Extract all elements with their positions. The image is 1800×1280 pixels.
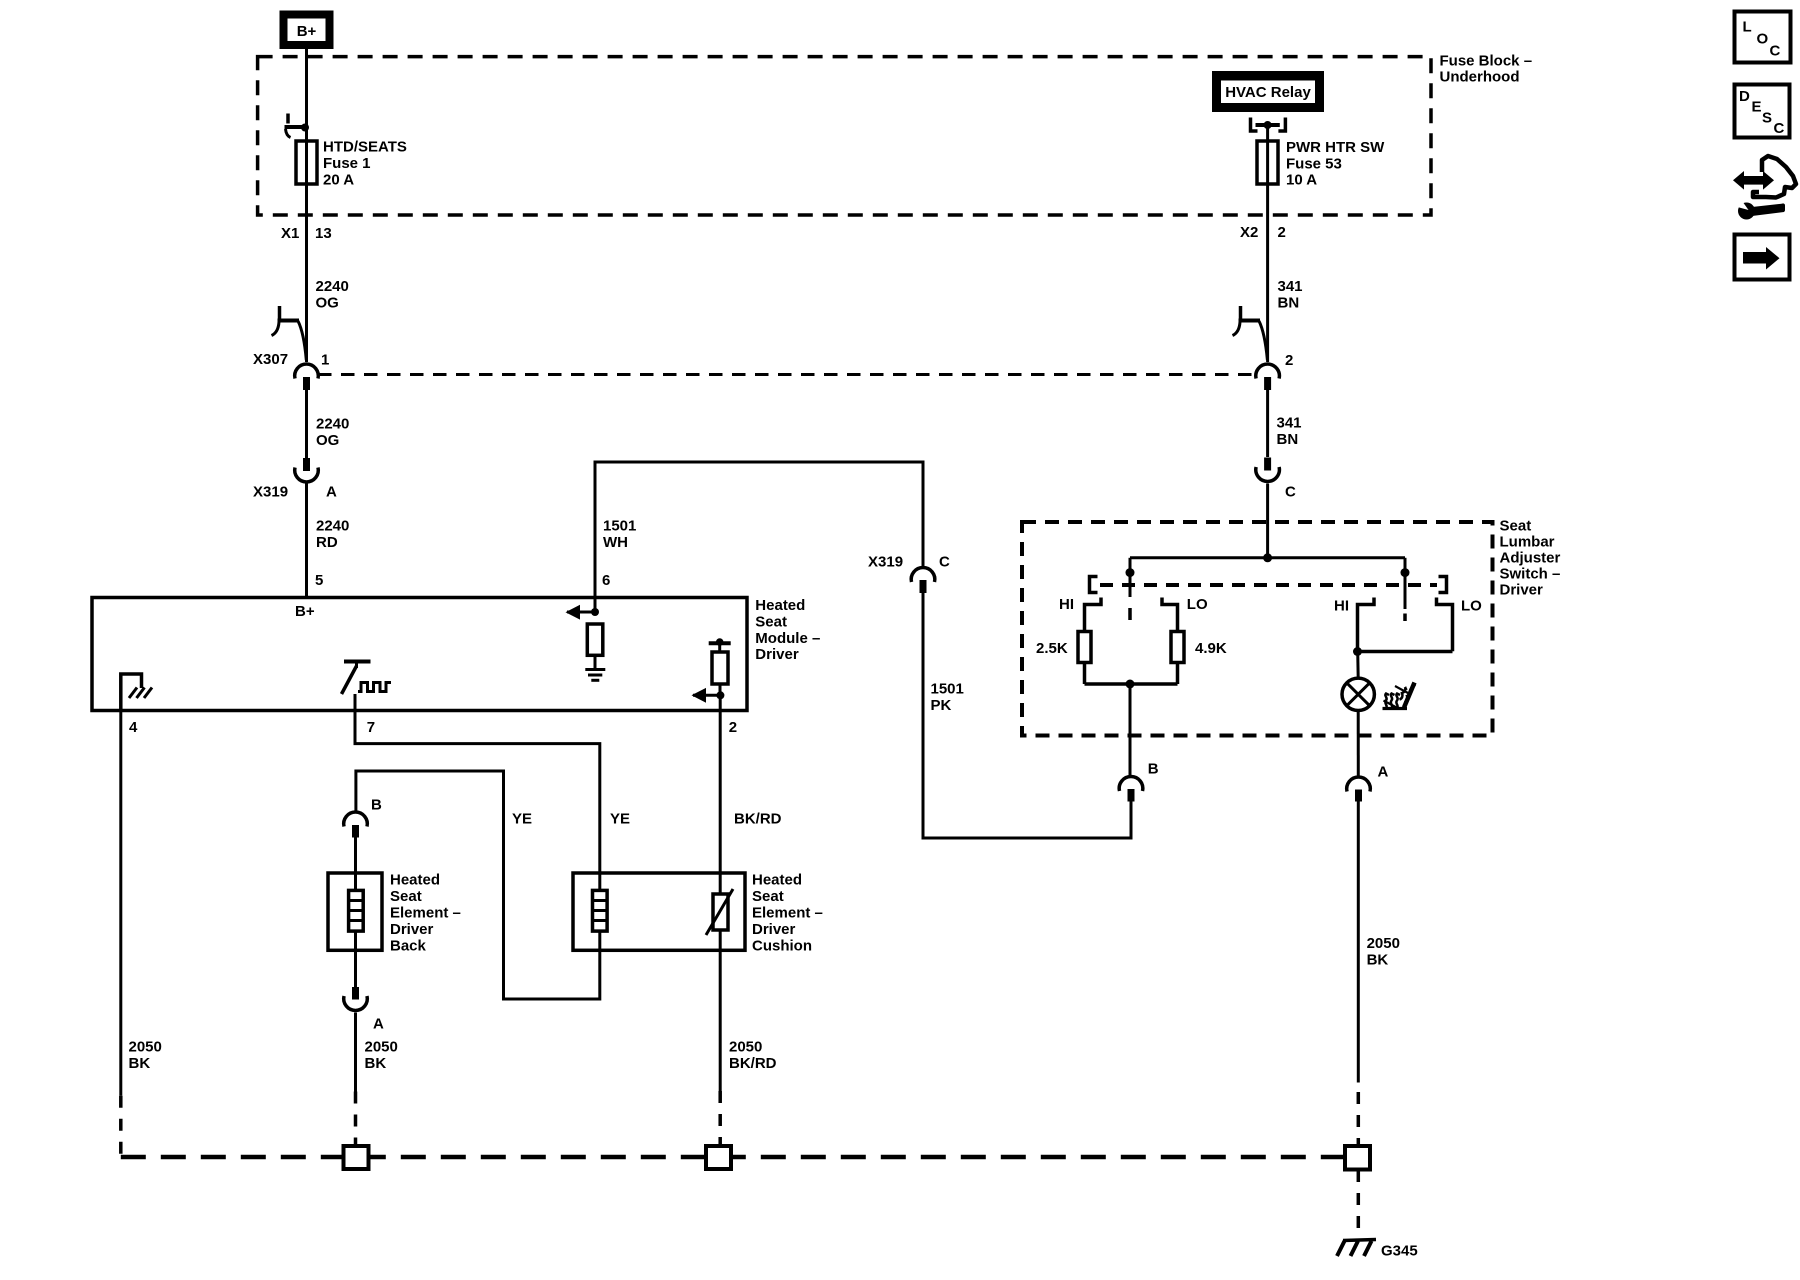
svg-text:BN: BN: [1278, 295, 1300, 312]
svg-text:A: A: [373, 1016, 384, 1033]
svg-text:A: A: [326, 484, 337, 501]
svg-text:341: 341: [1278, 278, 1303, 295]
svg-text:13: 13: [315, 225, 332, 242]
svg-text:7: 7: [367, 719, 375, 736]
svg-text:Element –: Element –: [390, 905, 461, 922]
svg-text:X319: X319: [253, 484, 288, 501]
svg-text:BK/RD: BK/RD: [729, 1055, 777, 1072]
svg-text:BK: BK: [129, 1055, 151, 1072]
svg-text:2050: 2050: [1367, 935, 1400, 952]
svg-text:1501: 1501: [931, 681, 964, 698]
svg-text:WH: WH: [603, 534, 628, 551]
svg-text:Back: Back: [390, 938, 427, 955]
svg-text:HI: HI: [1059, 596, 1074, 613]
svg-text:O: O: [1757, 31, 1769, 48]
svg-text:2240: 2240: [316, 416, 349, 433]
svg-text:2050: 2050: [729, 1039, 762, 1056]
svg-text:X319: X319: [868, 554, 903, 571]
svg-text:341: 341: [1277, 415, 1302, 432]
svg-text:HI: HI: [1334, 598, 1349, 615]
svg-text:L: L: [1743, 19, 1752, 36]
svg-text:2: 2: [729, 719, 737, 736]
svg-text:6: 6: [602, 572, 610, 589]
svg-text:C: C: [1285, 484, 1296, 501]
svg-text:BK: BK: [365, 1055, 387, 1072]
svg-text:PWR HTR SW: PWR HTR SW: [1286, 139, 1385, 156]
svg-text:C: C: [939, 554, 950, 571]
svg-text:20 A: 20 A: [323, 172, 354, 189]
svg-text:Seat: Seat: [1500, 518, 1532, 535]
svg-text:Driver: Driver: [755, 646, 799, 663]
svg-text:B: B: [371, 797, 382, 814]
svg-text:Seat: Seat: [755, 614, 787, 631]
svg-text:YE: YE: [512, 811, 532, 828]
svg-text:Switch –: Switch –: [1500, 566, 1561, 583]
svg-text:PK: PK: [931, 697, 952, 714]
svg-text:Fuse Block –: Fuse Block –: [1440, 53, 1533, 70]
svg-text:D: D: [1739, 88, 1750, 105]
svg-text:BK: BK: [1367, 952, 1389, 969]
svg-text:4.9K: 4.9K: [1195, 640, 1227, 657]
svg-text:Heated: Heated: [752, 872, 802, 889]
svg-text:HVAC Relay: HVAC Relay: [1225, 84, 1311, 101]
svg-text:A: A: [1378, 764, 1389, 781]
svg-text:Fuse 53: Fuse 53: [1286, 156, 1342, 173]
svg-text:B: B: [1148, 761, 1159, 778]
svg-text:RD: RD: [316, 534, 338, 551]
svg-text:HTD/SEATS: HTD/SEATS: [323, 139, 407, 156]
svg-text:LO: LO: [1461, 598, 1482, 615]
svg-text:OG: OG: [316, 432, 339, 449]
svg-text:2050: 2050: [129, 1039, 162, 1056]
svg-text:BN: BN: [1277, 431, 1299, 448]
svg-text:2240: 2240: [316, 518, 349, 535]
svg-text:B+: B+: [295, 603, 315, 620]
svg-text:2050: 2050: [365, 1039, 398, 1056]
svg-text:5: 5: [315, 572, 323, 589]
svg-text:Heated: Heated: [755, 597, 805, 614]
svg-text:Fuse 1: Fuse 1: [323, 155, 371, 172]
svg-text:C: C: [1774, 120, 1785, 137]
svg-text:2.5K: 2.5K: [1036, 640, 1068, 657]
svg-text:G345: G345: [1381, 1243, 1418, 1260]
svg-text:1501: 1501: [603, 518, 636, 535]
svg-text:Module –: Module –: [755, 630, 820, 647]
svg-text:X1: X1: [281, 225, 299, 242]
svg-text:Seat: Seat: [752, 888, 784, 905]
svg-text:Driver: Driver: [390, 921, 434, 938]
svg-text:S: S: [1762, 110, 1772, 127]
svg-text:2: 2: [1285, 352, 1293, 369]
svg-text:Heated: Heated: [390, 872, 440, 889]
svg-text:X2: X2: [1240, 224, 1258, 241]
svg-text:Element –: Element –: [752, 905, 823, 922]
svg-text:Seat: Seat: [390, 888, 422, 905]
svg-text:Lumbar: Lumbar: [1500, 534, 1555, 551]
svg-text:B+: B+: [297, 23, 317, 40]
svg-text:Driver: Driver: [1500, 582, 1544, 599]
svg-text:2240: 2240: [316, 278, 349, 295]
svg-text:C: C: [1770, 43, 1781, 60]
svg-text:Adjuster: Adjuster: [1500, 550, 1561, 567]
svg-text:BK/RD: BK/RD: [734, 811, 782, 828]
svg-text:2: 2: [1278, 224, 1286, 241]
svg-text:10 A: 10 A: [1286, 172, 1317, 189]
svg-text:YE: YE: [610, 811, 630, 828]
svg-text:Underhood: Underhood: [1440, 69, 1520, 86]
svg-text:Driver: Driver: [752, 921, 796, 938]
svg-text:Cushion: Cushion: [752, 938, 812, 955]
svg-text:LO: LO: [1187, 596, 1208, 613]
svg-text:E: E: [1752, 99, 1762, 116]
svg-text:X307: X307: [253, 351, 288, 368]
svg-text:4: 4: [129, 719, 138, 736]
svg-text:OG: OG: [316, 295, 339, 312]
svg-text:1: 1: [321, 352, 329, 369]
